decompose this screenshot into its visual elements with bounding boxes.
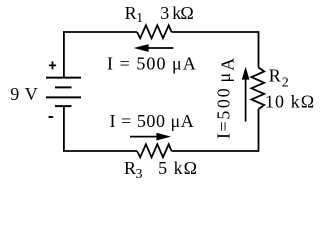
resistor R3 xyxy=(137,144,172,157)
current arrow (up) left of R2 xyxy=(245,79,247,122)
svg-text:9 V: 9 V xyxy=(10,84,38,104)
svg-text:I = 500 μA: I = 500 μA xyxy=(107,54,197,74)
resistor R2 xyxy=(251,68,264,110)
svg-text:R1: R1 xyxy=(125,3,144,26)
svg-text:I = 500 μA: I = 500 μA xyxy=(110,111,195,131)
battery B1 long plate (top, positive) xyxy=(46,77,81,79)
wire R2 bottom lead down across bottom-right corner to R3 right lead xyxy=(172,109,259,151)
wire battery positive terminal up and across to R1 left lead xyxy=(64,32,137,77)
wire R3 left lead across bottom-left corner up to battery negative terminal xyxy=(64,107,137,152)
svg-text:5 kΩ: 5 kΩ xyxy=(158,158,198,178)
battery minus sign xyxy=(49,116,54,118)
wire R1 right lead across top-right corner down to R2 top lead xyxy=(172,32,259,68)
svg-text:10 kΩ: 10 kΩ xyxy=(265,92,315,112)
svg-text:3 kΩ: 3 kΩ xyxy=(160,3,193,23)
battery B1 short plate (bottom, negative) xyxy=(55,105,72,107)
svg-text:R2: R2 xyxy=(269,66,289,91)
current arrow (left) under R1 xyxy=(148,47,174,49)
svg-text:R3: R3 xyxy=(124,158,143,182)
svg-text:I = 500 μA: I = 500 μA xyxy=(213,58,237,139)
battery plus sign xyxy=(49,61,56,69)
resistor R1 xyxy=(137,25,172,38)
battery B1 long plate (third) xyxy=(46,96,81,98)
battery B1 short plate (second) xyxy=(55,86,72,88)
current arrow (right) above R3 xyxy=(130,136,158,138)
